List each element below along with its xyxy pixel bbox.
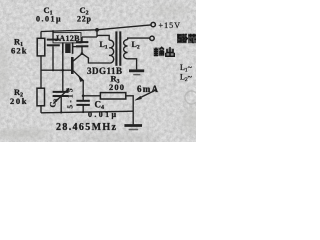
- inductor L2: [124, 40, 128, 59]
- wire: crystal left down to base wire and C3: [62, 54, 64, 92]
- resistor R1: [37, 38, 45, 56]
- label CJK shuchu (output): [153, 47, 174, 56]
- svg-text:28.465MHz: 28.465MHz: [56, 122, 117, 133]
- capacitor C3 (trimmer): [53, 88, 69, 112]
- svg-text:22p: 22p: [77, 15, 92, 24]
- left rail middle: [40, 56, 42, 88]
- left rail lower: [40, 106, 42, 113]
- base wire: [41, 69, 71, 71]
- output terminal: [150, 36, 154, 40]
- wire: L2 top to output terminal: [128, 38, 150, 40]
- resistor R2: [37, 88, 45, 106]
- capacitor C1: [47, 31, 60, 70]
- wire: emitter node to R3: [83, 95, 100, 97]
- label CJK cixin (magnetic core): [177, 34, 197, 43]
- inductor L1: [109, 40, 113, 63]
- transistor Q1 3DG11B: [72, 54, 83, 82]
- wire: C2 top to rail dot: [82, 30, 97, 37]
- node: C1 top on rail: [52, 30, 54, 32]
- ground for L2: [129, 69, 144, 72]
- ground main: [124, 124, 142, 127]
- node: C4 on ground rail: [82, 111, 84, 113]
- svg-text:6mA: 6mA: [137, 84, 159, 94]
- wire: rail dot to L1 top: [97, 35, 109, 40]
- wire: emitter down: [82, 80, 84, 101]
- svg-text:+15V: +15V: [159, 21, 181, 30]
- JA12B label box: [53, 33, 81, 43]
- bottom ground rail: [41, 111, 133, 113]
- paper background: [0, 0, 196, 142]
- svg-text:3DG11B: 3DG11B: [87, 66, 122, 76]
- svg-text:5-15: 5-15: [67, 88, 75, 109]
- svg-text:200: 200: [109, 82, 124, 92]
- left rail upper: [40, 32, 42, 39]
- top +15V rail: [41, 25, 151, 32]
- svg-text:62k: 62k: [11, 45, 27, 55]
- wire: R3 to ground: [126, 96, 133, 125]
- node junction on rail: [95, 28, 99, 32]
- transformer core: [115, 31, 117, 65]
- svg-text:0.01μ: 0.01μ: [36, 15, 61, 24]
- resistor R3: [100, 93, 125, 99]
- capacitor C4: [76, 101, 89, 113]
- 6mA current arrow: [137, 90, 156, 99]
- node: emitter junction: [82, 94, 85, 97]
- node: collector junction: [81, 52, 84, 55]
- svg-text:JA12B: JA12B: [55, 34, 80, 43]
- faint circle mark right edge: [185, 91, 198, 104]
- svg-text:20k: 20k: [10, 96, 27, 106]
- node: C3 on ground rail: [60, 111, 62, 113]
- +15V terminal: [151, 22, 155, 26]
- crystal JA12B: [63, 42, 82, 54]
- node: C1 bottom on base wire: [52, 69, 54, 71]
- wire: L1 bottom to collector: [82, 54, 109, 63]
- capacitor C2: [76, 37, 88, 54]
- node: crystal branch on base wire: [62, 69, 65, 72]
- wire: L2 bottom to ground: [128, 59, 137, 70]
